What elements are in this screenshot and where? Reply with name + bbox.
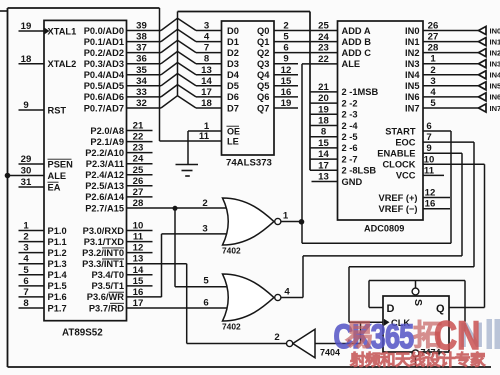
svg-text:P0.5/AD5: P0.5/AD5 [84, 81, 124, 91]
svg-text:D5: D5 [227, 81, 239, 91]
svg-text:ADD B: ADD B [342, 37, 372, 47]
svg-text:IN2: IN2 [405, 48, 419, 58]
svg-text:LE: LE [227, 137, 239, 147]
svg-text:38: 38 [136, 32, 147, 43]
svg-text:5: 5 [203, 276, 209, 287]
svg-text:14: 14 [201, 76, 212, 87]
svg-text:20: 20 [318, 93, 329, 104]
svg-text:RST: RST [48, 105, 67, 115]
svg-text:2 -6: 2 -6 [342, 143, 358, 153]
svg-text:2 -3: 2 -3 [342, 110, 358, 120]
svg-text:P3.6/WR: P3.6/WR [87, 292, 124, 302]
svg-text:24: 24 [318, 32, 329, 43]
svg-text:6: 6 [203, 297, 208, 308]
svg-text:IN1: IN1 [405, 37, 419, 47]
svg-text:10: 10 [133, 221, 144, 232]
svg-text:P3.2/INT0: P3.2/INT0 [82, 248, 124, 258]
svg-text:18: 18 [21, 54, 32, 65]
svg-text:12: 12 [281, 65, 292, 76]
svg-text:Q1: Q1 [257, 37, 269, 47]
svg-text:9: 9 [426, 143, 431, 154]
svg-text:28: 28 [133, 198, 144, 209]
svg-text:IN3: IN3 [490, 60, 500, 69]
svg-text:25: 25 [318, 21, 329, 32]
svg-text:IN4: IN4 [490, 71, 500, 80]
svg-text:35: 35 [136, 65, 147, 76]
svg-text:P0.2/AD2: P0.2/AD2 [84, 48, 124, 58]
svg-text:16: 16 [281, 87, 292, 98]
svg-text:27: 27 [428, 32, 439, 43]
svg-text:D4: D4 [227, 70, 240, 80]
svg-text:D1: D1 [227, 37, 239, 47]
svg-text:2 -4: 2 -4 [342, 121, 359, 131]
svg-text:15: 15 [318, 138, 329, 149]
svg-text:8: 8 [23, 298, 29, 309]
svg-text:3: 3 [23, 243, 28, 254]
svg-text:S: S [412, 299, 424, 306]
svg-text:19: 19 [318, 104, 329, 115]
svg-text:13: 13 [201, 65, 212, 76]
svg-text:25: 25 [133, 165, 144, 176]
svg-text:2 -8LSB: 2 -8LSB [342, 166, 377, 176]
svg-text:9: 9 [283, 54, 288, 65]
svg-text:21: 21 [133, 121, 144, 132]
svg-text:P1.0: P1.0 [48, 226, 67, 236]
svg-text:3: 3 [202, 224, 207, 235]
svg-text:12: 12 [425, 188, 436, 199]
svg-text:P0.7/AD7: P0.7/AD7 [84, 103, 124, 113]
svg-text:IN5: IN5 [405, 81, 419, 91]
svg-text:15: 15 [133, 276, 144, 287]
svg-text:D2: D2 [227, 48, 239, 58]
svg-text:IN6: IN6 [490, 93, 500, 102]
svg-text:VREF (+): VREF (+) [379, 193, 418, 203]
svg-text:2 -7: 2 -7 [342, 154, 358, 164]
svg-text:17: 17 [201, 87, 212, 98]
svg-text:P0.1/AD1: P0.1/AD1 [84, 37, 124, 47]
svg-text:15: 15 [281, 76, 292, 87]
svg-text:OE: OE [227, 126, 240, 136]
svg-text:P1.5: P1.5 [48, 281, 67, 291]
svg-text:2: 2 [23, 232, 28, 243]
svg-text:3: 3 [204, 21, 209, 32]
svg-text:P2.6/A14: P2.6/A14 [85, 192, 125, 202]
svg-text:11: 11 [133, 232, 144, 243]
svg-text:5: 5 [430, 98, 436, 109]
svg-text:ALE: ALE [342, 59, 361, 69]
svg-text:D: D [387, 303, 395, 315]
svg-text:P2.0/A8: P2.0/A8 [90, 126, 124, 136]
svg-text:12: 12 [133, 243, 144, 254]
svg-text:P1.2: P1.2 [48, 248, 67, 258]
svg-text:IN6: IN6 [405, 92, 419, 102]
svg-text:2: 2 [274, 332, 279, 343]
svg-text:P1.1: P1.1 [48, 237, 67, 247]
svg-text:10: 10 [424, 154, 435, 165]
svg-text:VCC: VCC [396, 171, 416, 181]
svg-text:5: 5 [23, 265, 29, 276]
svg-text:D0: D0 [227, 26, 239, 36]
svg-text:8: 8 [321, 127, 327, 138]
svg-text:Q4: Q4 [257, 70, 270, 80]
svg-text:P0.4/AD4: P0.4/AD4 [84, 70, 125, 80]
svg-text:6: 6 [426, 121, 431, 132]
svg-text:EA: EA [48, 182, 61, 192]
svg-text:24: 24 [133, 154, 144, 165]
svg-text:射频和天线设计专家: 射频和天线设计专家 [349, 350, 486, 369]
svg-text:37: 37 [136, 43, 147, 54]
svg-text:P1.4: P1.4 [48, 270, 68, 280]
svg-text:2: 2 [283, 21, 288, 32]
svg-text:4: 4 [284, 287, 290, 298]
svg-text:ADD A: ADD A [342, 26, 371, 36]
svg-text:7: 7 [23, 287, 28, 298]
svg-text:4: 4 [23, 254, 29, 265]
svg-text:IN1: IN1 [490, 37, 500, 46]
svg-text:P1.7: P1.7 [48, 303, 67, 313]
svg-text:19: 19 [281, 98, 292, 109]
svg-text:26: 26 [428, 21, 439, 32]
svg-text:30: 30 [21, 166, 32, 177]
svg-text:START: START [385, 126, 416, 136]
svg-text:26: 26 [133, 176, 144, 187]
svg-text:易: 易 [345, 320, 374, 352]
svg-text:P0.0/AD0: P0.0/AD0 [84, 26, 124, 36]
svg-text:2: 2 [430, 65, 435, 76]
svg-text:P3.3/INT1: P3.3/INT1 [82, 259, 124, 269]
svg-text:18: 18 [318, 116, 329, 127]
svg-text:74ALS373: 74ALS373 [226, 158, 272, 169]
svg-text:Q7: Q7 [257, 103, 269, 113]
svg-text:6: 6 [23, 276, 28, 287]
svg-text:17: 17 [318, 160, 329, 171]
svg-text:33: 33 [136, 87, 147, 98]
svg-text:P3.5/T1: P3.5/T1 [91, 281, 124, 291]
svg-text:9: 9 [23, 100, 28, 111]
svg-text:PSEN: PSEN [48, 159, 74, 169]
svg-text:1: 1 [430, 54, 436, 65]
svg-text:XTAL2: XTAL2 [48, 59, 77, 69]
svg-text:IN0: IN0 [405, 26, 419, 36]
svg-text:13: 13 [133, 254, 144, 265]
svg-text:IN0: IN0 [490, 26, 500, 35]
svg-text:P2.7/A15: P2.7/A15 [85, 203, 124, 213]
svg-text:29: 29 [21, 154, 32, 165]
svg-text:P3.1/TXD: P3.1/TXD [84, 237, 125, 247]
svg-text:ADD C: ADD C [342, 48, 372, 58]
svg-text:VREF (−): VREF (−) [379, 204, 418, 214]
svg-text:Q6: Q6 [257, 92, 269, 102]
svg-text:IN7: IN7 [405, 103, 419, 113]
svg-text:IN5: IN5 [490, 82, 500, 91]
svg-text:P3.4/T0: P3.4/T0 [91, 270, 124, 280]
svg-text:28: 28 [428, 43, 439, 54]
svg-text:P0.6/AD6: P0.6/AD6 [84, 92, 124, 102]
svg-text:Q0: Q0 [257, 26, 269, 36]
svg-text:P1.3: P1.3 [48, 259, 67, 269]
svg-text:8: 8 [204, 54, 210, 65]
svg-text:16: 16 [133, 287, 144, 298]
svg-text:D7: D7 [227, 103, 239, 113]
svg-text:P2.5/A13: P2.5/A13 [85, 181, 124, 191]
svg-text:P1.6: P1.6 [48, 292, 67, 302]
svg-text:XTAL1: XTAL1 [48, 26, 77, 36]
svg-text:IN4: IN4 [405, 70, 420, 80]
svg-text:D6: D6 [227, 92, 239, 102]
svg-text:11: 11 [424, 165, 435, 176]
svg-text:17: 17 [133, 298, 144, 309]
svg-text:7: 7 [204, 43, 209, 54]
svg-text:32: 32 [136, 98, 147, 109]
svg-text:3: 3 [430, 76, 435, 87]
svg-text:GND: GND [342, 177, 363, 187]
svg-text:2 -2: 2 -2 [342, 98, 358, 108]
svg-text:34: 34 [136, 76, 147, 87]
svg-text:AT89S52: AT89S52 [62, 328, 103, 339]
svg-text:P2.2/A10: P2.2/A10 [85, 148, 124, 158]
svg-text:Q5: Q5 [257, 81, 269, 91]
svg-text:P2.3/A11: P2.3/A11 [86, 159, 124, 169]
svg-text:P2.4/A12: P2.4/A12 [85, 170, 124, 180]
svg-text:Q2: Q2 [257, 48, 269, 58]
svg-text:11: 11 [199, 131, 210, 142]
svg-text:P0.3/AD3: P0.3/AD3 [84, 59, 124, 69]
svg-text:IN7: IN7 [490, 104, 500, 113]
svg-text:31: 31 [21, 177, 32, 188]
svg-text:ALE: ALE [48, 171, 67, 181]
svg-text:2 -1MSB: 2 -1MSB [342, 87, 379, 97]
svg-text:22: 22 [133, 132, 144, 143]
svg-text:ADC0809: ADC0809 [364, 224, 404, 234]
svg-text:EOC: EOC [395, 137, 415, 147]
svg-text:6: 6 [283, 43, 288, 54]
svg-text:IN2: IN2 [490, 48, 500, 57]
svg-text:D3: D3 [227, 59, 239, 69]
svg-text:P3.7/RD: P3.7/RD [89, 303, 124, 313]
svg-text:4: 4 [430, 87, 436, 98]
svg-text:P3.0/RXD: P3.0/RXD [83, 226, 125, 236]
svg-text:ENABLE: ENABLE [377, 149, 415, 159]
svg-text:IN3: IN3 [405, 59, 419, 69]
svg-text:22: 22 [318, 54, 329, 65]
svg-text:19: 19 [21, 21, 32, 32]
svg-text:Q3: Q3 [257, 59, 269, 69]
svg-text:2 -5: 2 -5 [342, 132, 358, 142]
svg-text:14: 14 [318, 149, 329, 160]
svg-text:21: 21 [318, 82, 329, 93]
svg-text:23: 23 [133, 143, 144, 154]
svg-text:1: 1 [283, 211, 289, 222]
svg-text:CLOCK: CLOCK [382, 160, 415, 170]
svg-text:7402: 7402 [222, 246, 241, 256]
svg-text:1: 1 [23, 221, 29, 232]
svg-text:13: 13 [318, 172, 329, 183]
svg-text:P2.1/A9: P2.1/A9 [90, 137, 124, 147]
svg-text:7: 7 [426, 132, 431, 143]
svg-text:27: 27 [133, 187, 144, 198]
svg-text:2: 2 [202, 198, 207, 209]
svg-text:4: 4 [204, 32, 210, 43]
svg-text:5: 5 [283, 32, 289, 43]
svg-text:39: 39 [136, 21, 147, 32]
svg-text:23: 23 [318, 43, 329, 54]
svg-text:16: 16 [425, 199, 436, 210]
svg-text:7402: 7402 [222, 322, 241, 332]
svg-text:36: 36 [136, 54, 147, 65]
svg-text:14: 14 [133, 265, 144, 276]
svg-text:18: 18 [201, 98, 212, 109]
